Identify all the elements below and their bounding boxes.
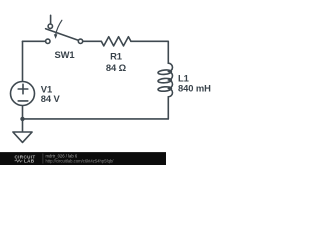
svg-text:840 mH: 840 mH: [178, 83, 211, 94]
switch SW1 common terminal: [78, 39, 82, 43]
wire: switch to resistor: [83, 40, 101, 42]
switch SW1 left throw terminal: [46, 39, 50, 43]
footer logo LAB: [15, 160, 23, 162]
wire: left rail: [22, 41, 24, 81]
wire: top-left segment: [23, 40, 46, 42]
V1 minus sign: [18, 100, 28, 102]
svg-text:SW1: SW1: [55, 49, 75, 60]
svg-text:http://circuitlab.com/c6kt4z54: http://circuitlab.com/c6kt4z54hp5fqb/: [46, 158, 115, 163]
switch SW1 arrowhead: [54, 34, 58, 39]
footer bar: [0, 152, 166, 165]
inductor L1 curl 3: [158, 86, 172, 91]
svg-text:84 V: 84 V: [41, 93, 61, 104]
inductor L1 curl 2: [158, 78, 172, 83]
wire: ground stub: [22, 119, 24, 132]
switch SW1 lever: [46, 29, 79, 41]
svg-text:LAB: LAB: [24, 159, 35, 164]
node: bottom-left junction: [20, 117, 24, 121]
switch SW1 upper throw terminal: [48, 24, 52, 28]
switch SW1 upper stub: [50, 15, 52, 24]
V1 plus sign: [18, 84, 28, 94]
wire: bottom rail: [23, 118, 169, 120]
svg-text:84 Ω: 84 Ω: [106, 62, 127, 73]
wire: right rail bottom: [167, 97, 169, 119]
resistor R1: [101, 37, 131, 46]
ground symbol: [13, 132, 32, 142]
wire: resistor to top-right corner and right rail top: [131, 41, 168, 63]
inductor L1 curl 1: [158, 69, 172, 74]
switch SW1 actuator arrow: [56, 20, 62, 34]
footer separator: [42, 154, 45, 164]
inductor L1 coil bumps: [168, 63, 172, 97]
voltage source V1 circle: [11, 82, 35, 106]
wire: V1 bottom stub: [22, 106, 24, 119]
svg-text:R1: R1: [110, 50, 122, 61]
